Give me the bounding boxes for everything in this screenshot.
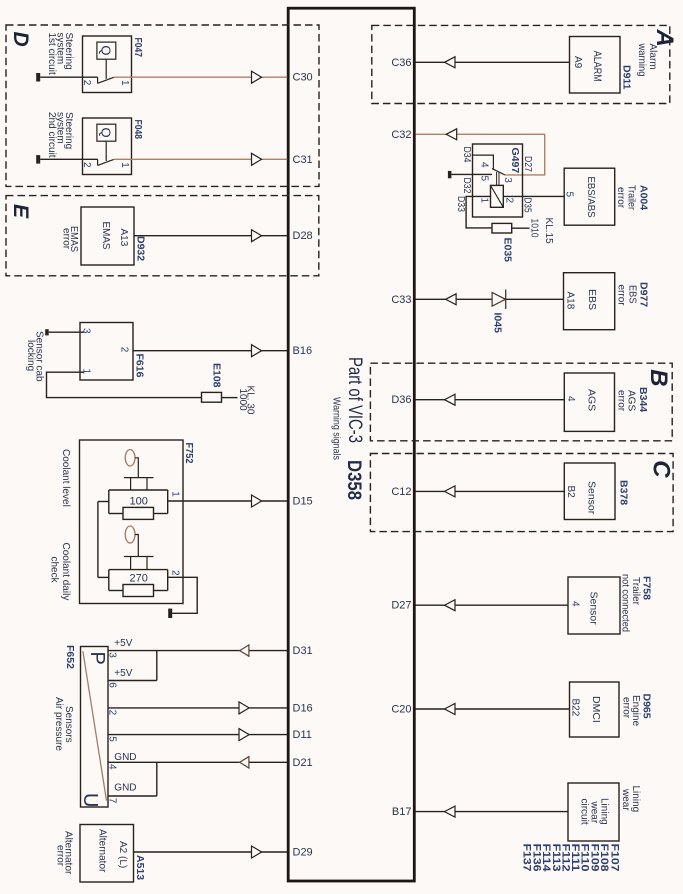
svg-text:circuit: circuit bbox=[579, 799, 590, 825]
wire sensor B378 to C12 bbox=[416, 490, 565, 492]
wire F048 pin 1 to C31 (brown) bbox=[114, 158, 287, 160]
arrow on wire C36 bbox=[445, 57, 456, 68]
EMAS control unit D932 box bbox=[81, 207, 134, 265]
svg-text:A2 (L): A2 (L) bbox=[117, 841, 128, 868]
svg-text:2: 2 bbox=[169, 570, 180, 576]
svg-text:C12: C12 bbox=[391, 486, 411, 498]
svg-text:C: C bbox=[648, 460, 675, 478]
svg-text:2nd circuit: 2nd circuit bbox=[46, 112, 57, 158]
dashed box E (EMAS) bbox=[6, 196, 319, 276]
stem of coolant daily check switch bbox=[135, 535, 138, 557]
diagonal line inside F652 (brown) bbox=[83, 651, 107, 801]
wire DMCI to C20 bbox=[416, 708, 570, 710]
svg-text:Q: Q bbox=[99, 128, 114, 138]
internal bus wire of F752 bbox=[97, 502, 99, 578]
F048 pin 2 contact tick bbox=[97, 159, 99, 165]
relay actuation link double line bbox=[496, 172, 498, 185]
sensor F616 box bbox=[80, 323, 133, 381]
svg-text:3: 3 bbox=[81, 328, 92, 334]
fuse E108 bbox=[202, 392, 222, 402]
ground terminal bar at relay pin 5 bbox=[448, 171, 452, 178]
svg-text:6: 6 bbox=[107, 682, 118, 688]
svg-text:D932: D932 bbox=[135, 236, 147, 261]
svg-text:F616: F616 bbox=[134, 354, 146, 378]
svg-text:EMAS: EMAS bbox=[100, 222, 112, 250]
arrow on wire C20 bbox=[445, 704, 456, 715]
wire F752 pin 2 to ground bbox=[168, 577, 198, 613]
diode I045 bbox=[492, 293, 505, 307]
svg-text:A004: A004 bbox=[638, 185, 650, 210]
wire ALARM to C36 bbox=[416, 61, 570, 63]
EBS/ABS control unit A004 box bbox=[564, 168, 615, 225]
float symbol of coolant daily check switch bbox=[125, 526, 135, 543]
svg-text:D33: D33 bbox=[455, 196, 466, 212]
svg-text:Sensor: Sensor bbox=[586, 481, 598, 515]
svg-text:KL.15: KL.15 bbox=[543, 218, 554, 245]
wire A513 to D29 bbox=[134, 851, 288, 853]
wire F616 pin 1 to fuse E108 bbox=[47, 372, 202, 397]
svg-text:D11: D11 bbox=[293, 729, 312, 741]
sensor F752 box bbox=[80, 440, 184, 604]
wire F752 pin 1 to D15 bbox=[168, 500, 288, 502]
arrow on wire C32 bbox=[446, 129, 457, 140]
sensor B378 box bbox=[564, 463, 615, 520]
wire ground to F047 pin 2 bbox=[40, 76, 97, 78]
switch F048 box bbox=[83, 118, 132, 175]
svg-text:D28: D28 bbox=[293, 230, 313, 242]
stem of coolant level switch bbox=[135, 458, 138, 478]
wire F652 pin 2 to D16 bbox=[108, 707, 287, 709]
F047 pin 2 contact tick bbox=[97, 77, 99, 83]
relay switch lever bbox=[492, 169, 505, 175]
svg-text:2: 2 bbox=[81, 162, 92, 168]
arrow on wire B16 bbox=[252, 345, 262, 357]
svg-text:Air pressure: Air pressure bbox=[53, 697, 64, 751]
svg-text:EBS/ABS: EBS/ABS bbox=[585, 177, 597, 218]
svg-text:C33: C33 bbox=[391, 294, 411, 306]
svg-text:EBS: EBS bbox=[627, 285, 638, 304]
svg-text:error: error bbox=[616, 285, 627, 307]
wire junction pin4 to pin7 bbox=[156, 762, 158, 796]
wire F047 pin 1 to C30 (brown) bbox=[114, 76, 287, 78]
dashed box A (alarm warning) bbox=[372, 25, 670, 103]
svg-text:F048: F048 bbox=[132, 120, 144, 140]
svg-text:D358: D358 bbox=[343, 460, 365, 500]
wire left node to bus (coolant daily check) bbox=[98, 576, 109, 578]
svg-text:error: error bbox=[616, 390, 627, 412]
relay pin 2 wire to EBS/ABS pin 5 bbox=[503, 195, 564, 197]
arrow on wire D27 bbox=[445, 600, 456, 611]
svg-text:C32: C32 bbox=[391, 129, 411, 141]
arrow on wire C33 bbox=[446, 294, 457, 305]
wire ground to relay pin 5 bbox=[451, 173, 492, 175]
svg-text:warning: warning bbox=[636, 43, 647, 77]
svg-text:D32: D32 bbox=[461, 178, 472, 194]
svg-text:F652: F652 bbox=[64, 645, 76, 669]
svg-text:GND: GND bbox=[114, 783, 136, 794]
svg-text:B16: B16 bbox=[293, 345, 313, 357]
AGS control unit B344 box bbox=[564, 373, 614, 431]
svg-text:1: 1 bbox=[479, 198, 490, 204]
arrow on wire D15 bbox=[252, 495, 262, 507]
svg-text:error: error bbox=[55, 845, 66, 867]
crossbar of coolant daily check switch bbox=[124, 556, 153, 558]
svg-text:Trailer: Trailer bbox=[626, 185, 637, 211]
arrow on wire D28 bbox=[252, 230, 262, 242]
svg-text:D16: D16 bbox=[293, 702, 313, 714]
arrow on wire D29 bbox=[252, 846, 262, 858]
svg-text:C30: C30 bbox=[293, 72, 313, 84]
svg-text:Part of VIC-3: Part of VIC-3 bbox=[344, 357, 366, 443]
arrow on wire B17 bbox=[445, 806, 456, 817]
svg-text:U: U bbox=[79, 793, 101, 807]
svg-text:3: 3 bbox=[107, 652, 118, 658]
wire fuse E108 to KL. 30 bbox=[222, 397, 238, 399]
ground terminal bar for F616 pin 3 bbox=[45, 329, 49, 335]
svg-text:locking: locking bbox=[25, 340, 36, 371]
ground terminal bar for F047 bbox=[36, 73, 40, 82]
wire C32 to relay G497 pin 3 (brown) bbox=[416, 134, 545, 175]
wire left node to bus (coolant level) bbox=[98, 501, 109, 503]
legs of coolant level switch bbox=[130, 478, 132, 490]
svg-text:D35: D35 bbox=[522, 198, 533, 213]
wire C33 to EBS bbox=[416, 298, 564, 300]
F047 actuator stem bbox=[105, 59, 107, 79]
svg-text:B2: B2 bbox=[565, 486, 576, 499]
EBS control unit D977 box bbox=[564, 273, 615, 330]
sensor F652 box bbox=[81, 647, 109, 808]
svg-text:A13: A13 bbox=[118, 229, 129, 247]
switch F047 box bbox=[83, 36, 132, 93]
svg-text:error: error bbox=[621, 697, 632, 719]
svg-text:4: 4 bbox=[107, 764, 118, 770]
relay pin 1 wire to fuse E035 bbox=[466, 196, 492, 228]
alternator A513 box bbox=[80, 825, 134, 883]
svg-text:F137: F137 bbox=[521, 844, 533, 872]
svg-text:B378: B378 bbox=[618, 480, 630, 505]
svg-text:B22: B22 bbox=[570, 699, 581, 717]
svg-text:D15: D15 bbox=[293, 496, 313, 508]
VIC-3 central control unit block D358 bbox=[288, 8, 414, 881]
engine control unit D965 box bbox=[570, 682, 620, 737]
svg-text:I045: I045 bbox=[492, 313, 504, 334]
svg-text:D27: D27 bbox=[391, 600, 411, 612]
svg-text:2: 2 bbox=[119, 347, 130, 353]
wire F758 to D27 bbox=[416, 604, 569, 606]
arrow on wire D21 bbox=[240, 757, 249, 768]
svg-text:F752: F752 bbox=[183, 443, 195, 464]
svg-text:Sensor: Sensor bbox=[588, 592, 600, 626]
svg-text:error: error bbox=[615, 187, 626, 209]
svg-text:D911: D911 bbox=[621, 65, 633, 90]
svg-text:Alarm: Alarm bbox=[647, 44, 658, 70]
svg-text:ALARM: ALARM bbox=[591, 51, 603, 82]
legs of coolant daily check switch bbox=[130, 557, 132, 570]
wire ground to F048 pin 2 bbox=[40, 158, 97, 160]
svg-text:2: 2 bbox=[81, 80, 92, 86]
F047 switch lever bbox=[98, 77, 114, 83]
fuse E035 bbox=[492, 223, 512, 233]
F048 inner Q symbol box bbox=[97, 124, 116, 141]
svg-text:D36: D36 bbox=[391, 394, 411, 406]
svg-text:C36: C36 bbox=[391, 57, 411, 69]
svg-text:C31: C31 bbox=[293, 154, 313, 166]
wire EMAS to D28 bbox=[134, 235, 287, 237]
relay G497 box bbox=[473, 144, 523, 217]
svg-text:A9: A9 bbox=[572, 56, 583, 69]
svg-text:AGS: AGS bbox=[586, 389, 598, 411]
svg-text:F047: F047 bbox=[132, 38, 144, 58]
svg-text:EBS: EBS bbox=[586, 289, 598, 310]
svg-text:E: E bbox=[9, 204, 32, 219]
svg-text:7: 7 bbox=[107, 798, 118, 804]
svg-text:5: 5 bbox=[564, 192, 575, 198]
svg-text:3: 3 bbox=[502, 177, 513, 183]
wire +5V rail F652 pin 3 to D31 bbox=[108, 650, 287, 652]
dashed box D (steering system circuits) bbox=[6, 25, 319, 186]
svg-text:C20: C20 bbox=[391, 704, 411, 716]
svg-text:Warning signals: Warning signals bbox=[331, 397, 342, 460]
F048 switch lever bbox=[98, 159, 114, 165]
ground terminal bar for F048 bbox=[36, 155, 40, 164]
svg-text:Coolant level: Coolant level bbox=[60, 449, 71, 507]
arrow on wire D11 bbox=[239, 729, 249, 741]
arrow on wire C30 bbox=[252, 71, 262, 83]
wire F616 pin 2 to B16 bbox=[133, 350, 287, 352]
arrow on wire D31 bbox=[240, 645, 249, 656]
wire lining wear circuit to B17 bbox=[416, 811, 569, 813]
svg-text:5: 5 bbox=[479, 176, 490, 182]
svg-text:1: 1 bbox=[169, 491, 180, 497]
svg-text:1000: 1000 bbox=[237, 389, 248, 412]
sensor F758 box bbox=[568, 577, 620, 634]
wire F652 pin 6 to +5V rail bbox=[108, 680, 157, 682]
lining wear circuit box bbox=[568, 783, 619, 841]
svg-text:5: 5 bbox=[107, 736, 118, 742]
relay coil bbox=[491, 185, 504, 207]
svg-text:1: 1 bbox=[119, 80, 130, 86]
svg-text:Coolant daily: Coolant daily bbox=[60, 543, 71, 601]
svg-text:100: 100 bbox=[130, 496, 148, 508]
svg-text:A18: A18 bbox=[565, 292, 576, 310]
svg-text:1st circuit: 1st circuit bbox=[46, 33, 57, 75]
svg-text:D29: D29 bbox=[293, 847, 313, 859]
svg-text:B344: B344 bbox=[637, 387, 649, 412]
resistor 100 parallel network bbox=[109, 489, 168, 491]
svg-text:+5V: +5V bbox=[114, 638, 132, 649]
svg-text:+5V: +5V bbox=[114, 668, 132, 679]
svg-text:error: error bbox=[61, 228, 72, 250]
svg-text:A513: A513 bbox=[134, 855, 146, 880]
svg-text:check: check bbox=[49, 557, 60, 584]
svg-text:E108: E108 bbox=[211, 363, 223, 388]
arrow on wire D16 bbox=[239, 702, 249, 714]
svg-text:D21: D21 bbox=[293, 757, 313, 769]
svg-text:4: 4 bbox=[570, 601, 581, 607]
svg-text:Trailer: Trailer bbox=[630, 577, 641, 606]
svg-text:Alternator: Alternator bbox=[97, 829, 108, 873]
svg-text:E035: E035 bbox=[502, 238, 514, 263]
resistor 270 parallel network bbox=[109, 569, 168, 571]
F047 inner Q symbol box bbox=[97, 42, 116, 59]
wire fuse E035 to KL.15 bbox=[512, 227, 530, 229]
svg-text:2: 2 bbox=[107, 710, 118, 716]
svg-text:D: D bbox=[9, 32, 32, 47]
svg-text:B17: B17 bbox=[392, 806, 412, 818]
relay pin 4 branch wire bbox=[473, 155, 494, 169]
dashed box C (sensor) bbox=[370, 454, 673, 532]
ground terminal bar of F752 pin 2 bbox=[168, 609, 172, 618]
arrow on wire D36 bbox=[445, 394, 456, 405]
svg-text:4: 4 bbox=[565, 396, 576, 402]
wire ground to F616 pin 3 bbox=[49, 331, 84, 333]
arrow on wire C12 bbox=[445, 486, 456, 497]
svg-text:not connected: not connected bbox=[620, 574, 631, 632]
wire F652 pin 5 to D11 bbox=[108, 734, 287, 736]
wire F652 pin 7 to GND rail bbox=[108, 795, 157, 797]
svg-text:P: P bbox=[86, 652, 108, 665]
arrow on wire C31 bbox=[252, 153, 262, 165]
wire GND rail F652 pin 4 to D21 bbox=[108, 761, 287, 763]
svg-text:270: 270 bbox=[130, 573, 148, 585]
dashed box B (AGS) bbox=[370, 363, 672, 441]
svg-text:D965: D965 bbox=[641, 694, 653, 719]
wire junction pin3 to pin6 bbox=[156, 651, 158, 681]
svg-text:2: 2 bbox=[504, 198, 515, 204]
svg-text:D34: D34 bbox=[461, 147, 472, 163]
svg-text:DMCI: DMCI bbox=[590, 696, 602, 723]
svg-text:B: B bbox=[645, 369, 672, 386]
wire AGS to D36 bbox=[416, 399, 565, 401]
alarm D911 box bbox=[570, 37, 621, 94]
svg-text:4: 4 bbox=[479, 162, 490, 168]
F048 actuator stem bbox=[105, 141, 107, 161]
crossbar of coolant level switch bbox=[124, 477, 153, 479]
svg-text:G497: G497 bbox=[509, 148, 521, 174]
svg-text:Q: Q bbox=[99, 45, 114, 55]
svg-text:D31: D31 bbox=[293, 645, 313, 657]
float symbol of coolant level switch bbox=[125, 450, 135, 466]
svg-text:F758: F758 bbox=[641, 576, 653, 600]
svg-text:GND: GND bbox=[114, 752, 136, 763]
svg-text:D977: D977 bbox=[638, 282, 650, 307]
svg-text:wear: wear bbox=[620, 788, 631, 811]
svg-text:D27: D27 bbox=[522, 156, 533, 172]
svg-text:1: 1 bbox=[119, 162, 130, 168]
svg-text:1010: 1010 bbox=[529, 219, 540, 238]
